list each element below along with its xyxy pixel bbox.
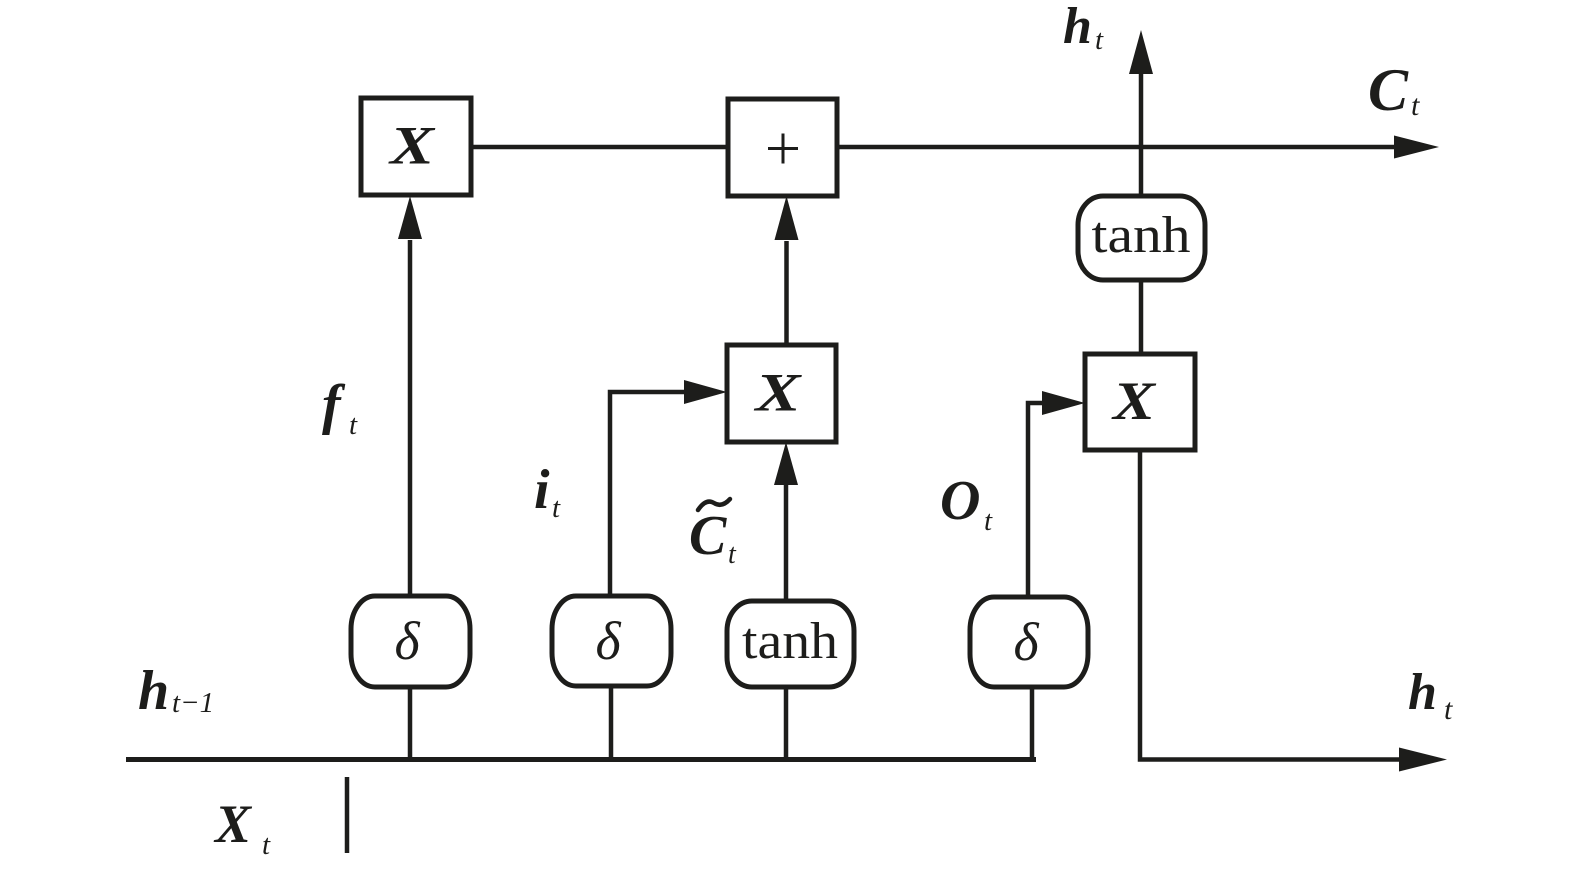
wire h(t-1) bottom input line (126, 757, 1036, 762)
tanh box upper (output activation) (1078, 196, 1205, 280)
svg-text:t−1: t−1 (172, 687, 214, 719)
svg-text:δ: δ (595, 611, 621, 671)
svg-text:t: t (1095, 24, 1104, 56)
label it (534, 459, 561, 524)
wire tanh lower down to input line (784, 687, 789, 759)
svg-text:X: X (213, 794, 253, 854)
add box (cell state sum) (728, 99, 837, 196)
svg-text:C: C (689, 505, 727, 567)
label C tilde t (689, 499, 737, 570)
svg-text:tanh: tanh (1092, 207, 1191, 264)
svg-text:h: h (1063, 0, 1092, 55)
svg-text:h: h (138, 660, 169, 722)
multiply box mid (input gate product) (727, 345, 836, 442)
svg-text:O: O (940, 470, 980, 532)
tanh box lower (candidate activation) (727, 601, 854, 687)
label ht top (1063, 0, 1104, 56)
input tick mark (345, 777, 350, 853)
svg-text:X: X (1111, 371, 1158, 431)
wire X1 to add box (471, 145, 728, 150)
wire tanh upper to X2 (1139, 280, 1144, 354)
label ft (322, 374, 358, 441)
svg-text:X: X (388, 116, 437, 176)
svg-text:t: t (1444, 693, 1453, 726)
label Ot (940, 470, 993, 537)
wire sigma1 down to input line (408, 687, 413, 759)
wire add box to Ct arrow (837, 136, 1439, 159)
svg-text:δ: δ (394, 611, 420, 671)
svg-text:h: h (1408, 664, 1437, 721)
svg-text:X: X (753, 363, 803, 423)
wire candidate C up to mid X (774, 442, 798, 601)
svg-text:tanh: tanh (742, 613, 838, 670)
sigma gate 1 (forget gate) (351, 596, 470, 687)
svg-text:t: t (1411, 89, 1420, 122)
wire ft sigma1 up to X1 (398, 196, 422, 596)
label Ct (1368, 57, 1420, 123)
wire sigma3 down to input line end (1030, 687, 1035, 762)
sigma gate 2 (input gate) (552, 596, 671, 686)
label h(t-1) (138, 660, 214, 722)
svg-text:t: t (349, 409, 358, 441)
svg-text:t: t (984, 505, 993, 537)
label ht bottom right (1408, 664, 1453, 726)
wire Ot elbow sigma3 to X2 (1028, 391, 1085, 597)
wire ht up arrow (1129, 30, 1153, 196)
svg-text:C: C (1368, 57, 1409, 123)
wire it elbow sigma2 to mid X (610, 380, 727, 596)
multiply box X2 (output product) (1085, 354, 1195, 450)
label Xt (213, 794, 271, 861)
sigma gate 3 (output gate) (970, 597, 1088, 687)
wire X2 down and right to ht arrow (1140, 450, 1447, 772)
svg-text:i: i (534, 459, 550, 521)
wire sigma2 down to input line (609, 686, 614, 759)
svg-text:t: t (552, 492, 561, 524)
svg-text:t: t (262, 829, 271, 861)
multiply box X1 (forget gate product) (361, 98, 471, 195)
svg-text:δ: δ (1013, 612, 1039, 672)
wire mid X up to add box (775, 196, 799, 345)
svg-text:t: t (728, 539, 737, 570)
